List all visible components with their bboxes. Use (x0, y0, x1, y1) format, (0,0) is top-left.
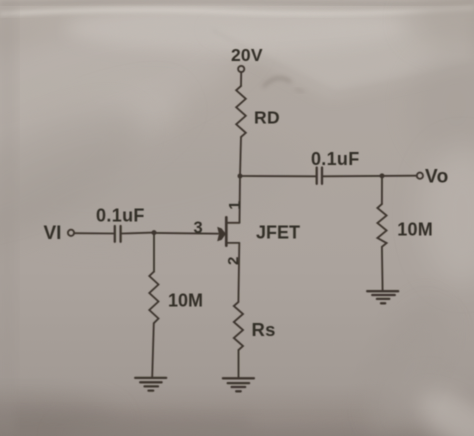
wire drain node to C2 (240, 175, 316, 177)
ground (source) (223, 378, 254, 391)
svg-text:0.1uF: 0.1uF (96, 206, 145, 226)
wire drain node to JFET drain (239, 176, 242, 223)
svg-text:JFET: JFET (256, 223, 300, 243)
svg-text:RD: RD (254, 108, 280, 128)
svg-text:Vo: Vo (425, 167, 449, 188)
svg-text:20V: 20V (231, 45, 263, 65)
svg-text:VI: VI (44, 223, 62, 244)
svg-text:0.1uF: 0.1uF (311, 149, 360, 169)
svg-text:3: 3 (194, 219, 203, 237)
output terminal Vo (417, 173, 423, 179)
resistor Rs (234, 302, 243, 350)
resistor RL 10M (377, 204, 386, 247)
supply terminal 20V (238, 66, 244, 72)
node drain junction (238, 174, 243, 179)
wire JFET source to Rs (237, 243, 240, 302)
svg-text:Rs: Rs (252, 319, 276, 340)
capacitor C2 0.1uF (317, 168, 322, 184)
ground (input) (135, 378, 166, 391)
svg-text:1: 1 (227, 201, 244, 210)
wire Vi to C1 (74, 232, 113, 234)
wire RG to ground (152, 323, 154, 377)
wire output node to RL (381, 176, 383, 204)
resistor RD (236, 86, 246, 137)
ground (output) (367, 291, 398, 303)
wire C1 to gate node (122, 232, 154, 235)
svg-text:10M: 10M (397, 220, 433, 240)
wire C2 to output node (323, 175, 382, 177)
svg-text:10M: 10M (168, 291, 203, 311)
wire RL to ground (381, 247, 384, 290)
wire gate node to RG (153, 233, 155, 272)
capacitor C1 0.1uF (115, 226, 121, 242)
transistor Q1 JFET (217, 217, 239, 245)
wire gate node to JFET gate (154, 232, 218, 235)
resistor RG 10M (149, 272, 158, 324)
wire supply terminal to RD (240, 72, 242, 86)
wire Rs to ground (238, 350, 240, 377)
wire output node to Vo terminal (382, 175, 417, 177)
node output junction (380, 173, 385, 178)
node gate junction (152, 230, 157, 235)
input terminal Vi (68, 230, 74, 236)
wire RD to drain node (240, 137, 241, 176)
